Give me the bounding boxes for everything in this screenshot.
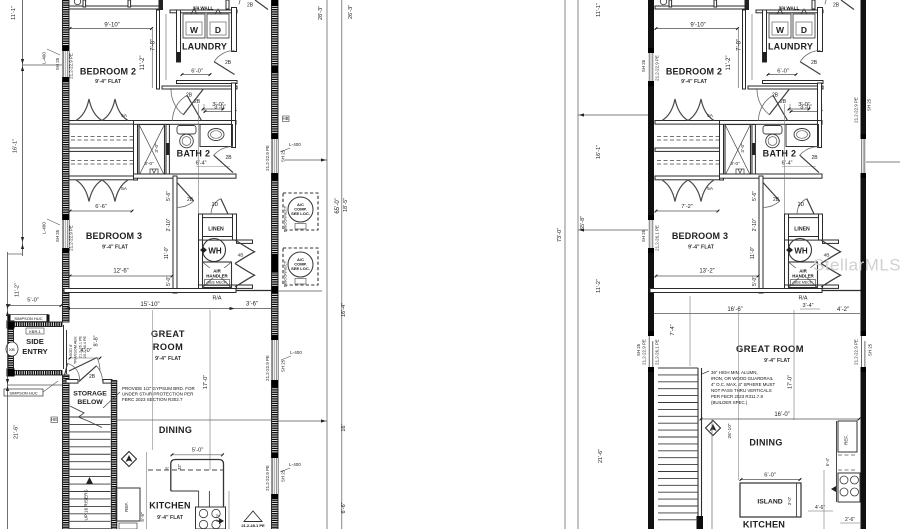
svg-text:SH 25: SH 25	[55, 229, 60, 242]
svg-text:5A: 5A	[707, 113, 714, 119]
svg-text:3/4 WALL: 3/4 WALL	[193, 6, 214, 11]
svg-text:11’-2”: 11’-2”	[596, 279, 602, 293]
svg-text:STORAGE: STORAGE	[73, 391, 107, 398]
svg-text:REF.: REF.	[124, 502, 129, 512]
svg-text:FBRC 2023 SECTION R302.7: FBRC 2023 SECTION R302.7	[122, 397, 183, 402]
svg-text:9’-4” FLAT: 9’-4” FLAT	[157, 515, 184, 521]
left plan: linen closet	[199, 214, 237, 218]
left plan: dim 3'-6	[236, 308, 272, 310]
svg-text:SIDE: SIDE	[26, 337, 44, 346]
left plan: WH bifold 4B	[235, 240, 255, 287]
svg-text:StellarMLS: StellarMLS	[813, 256, 900, 275]
svg-text:3’-0”: 3’-0”	[154, 143, 159, 153]
right plan: exterior right wall	[861, 0, 867, 529]
dim column: far left jog	[8, 253, 23, 255]
left plan: kitchen dims	[146, 452, 148, 529]
left plan: linen door 2D	[221, 199, 228, 214]
svg-text:21.2-22.9 PE: 21.2-22.9 PE	[854, 339, 859, 365]
svg-text:BELOW: BELOW	[77, 399, 103, 406]
svg-text:LINEN: LINEN	[208, 227, 224, 233]
svg-text:4B: 4B	[238, 253, 244, 259]
svg-text:W: W	[190, 25, 199, 35]
right plan: bedroom 2 right wall	[743, 10, 746, 89]
left plan: right wall window bath	[272, 134, 279, 139]
svg-text:6’-0”: 6’-0”	[777, 69, 789, 75]
svg-text:11’-0”: 11’-0”	[750, 246, 756, 259]
svg-text:HANDLER: HANDLER	[792, 274, 814, 279]
svg-text:KBR-1: KBR-1	[29, 329, 42, 334]
svg-text:2’-10”: 2’-10”	[752, 218, 758, 231]
svg-text:BEDROOM 2: BEDROOM 2	[80, 67, 136, 77]
left plan: porch posts	[7, 321, 15, 329]
svg-text:21.2-28.1 PE: 21.2-28.1 PE	[241, 523, 265, 528]
svg-text:L-400: L-400	[289, 142, 301, 147]
svg-text:HB: HB	[51, 417, 57, 422]
svg-text:7’-4”: 7’-4”	[670, 324, 676, 335]
left plan: kitchen peninsula	[171, 460, 224, 508]
svg-text:BATH 2: BATH 2	[177, 149, 211, 159]
svg-text:5’-0”: 5’-0”	[27, 298, 39, 304]
svg-text:(SEE MECH.: (SEE MECH.	[207, 281, 228, 285]
svg-text:11’-0”: 11’-0”	[164, 246, 170, 259]
left plan: range	[196, 507, 226, 529]
right plan: north arrow	[706, 421, 721, 436]
left plan: hall right wall	[232, 83, 236, 121]
svg-text:8’-8”: 8’-8”	[94, 335, 100, 346]
svg-text:16’: 16’	[341, 424, 347, 431]
svg-text:(BUILDER SPEC.): (BUILDER SPEC.)	[711, 400, 748, 405]
svg-text:UNDER STAIR PROTECTION PER: UNDER STAIR PROTECTION PER	[122, 392, 194, 397]
left plan: bedroom3/hall wall	[173, 176, 177, 293]
left plan: exterior left wall lower	[63, 375, 70, 529]
svg-text:L-400: L-400	[42, 52, 47, 64]
svg-text:SIMPSON HUC: SIMPSON HUC	[14, 316, 42, 321]
svg-text:DISCONNECT: DISCONNECT	[283, 205, 288, 232]
left plan: dim 6'-6 closet	[69, 210, 133, 212]
svg-text:WH: WH	[794, 247, 808, 256]
svg-text:21.2-22.9 PE: 21.2-22.9 PE	[265, 465, 270, 491]
svg-text:5A: 5A	[121, 113, 128, 119]
svg-text:9’-4” FLAT: 9’-4” FLAT	[764, 358, 791, 364]
right plan: bath door top 2B	[773, 95, 788, 120]
svg-text:SH 25: SH 25	[868, 343, 873, 356]
left plan: closet bifold bottom 5A	[76, 180, 128, 202]
left plan: closet walls	[69, 121, 134, 125]
left plan: dim 6'-0 laundry	[181, 74, 211, 76]
svg-text:6’-4”: 6’-4”	[782, 161, 793, 167]
svg-text:D: D	[215, 25, 221, 35]
svg-text:BEDROOM 3: BEDROOM 3	[86, 231, 142, 241]
svg-text:32”: 32”	[177, 463, 182, 470]
svg-text:UP 16 RISERS: UP 16 RISERS	[84, 489, 89, 520]
dim connector right y420	[278, 420, 327, 422]
right plan: closet shelves dashed	[657, 136, 719, 138]
svg-text:L-400: L-400	[42, 222, 47, 234]
right plan: dim 9'-10	[655, 28, 738, 30]
svg-text:ROOM: ROOM	[153, 342, 184, 352]
dim connector mid y115	[578, 114, 648, 116]
right plan: water heater WH	[789, 239, 812, 262]
svg-text:26’-3”: 26’-3”	[348, 5, 354, 19]
dim connector porch top	[8, 305, 63, 307]
svg-text:2B: 2B	[225, 155, 232, 161]
svg-text:2B: 2B	[89, 374, 96, 380]
left plan: left wall window bedroom2	[63, 46, 70, 51]
svg-text:21.2-26.1 PE: 21.2-26.1 PE	[79, 335, 83, 358]
left plan: laundry walls	[170, 10, 237, 13]
right plan: toilet	[763, 126, 782, 135]
svg-text:11’-2”: 11’-2”	[15, 283, 21, 297]
svg-text:WH: WH	[208, 247, 222, 256]
svg-text:5’-5”: 5’-5”	[140, 512, 145, 522]
svg-text:11’-2”: 11’-2”	[140, 56, 146, 71]
svg-text:(SEE MECH.: (SEE MECH.	[793, 281, 814, 285]
svg-text:2B: 2B	[194, 99, 201, 105]
right plan: washer	[769, 14, 791, 38]
dim column: left-plan right line B	[341, 0, 343, 529]
left plan: laundry door 2B	[214, 62, 234, 75]
right plan: right wall sliding door	[861, 336, 867, 367]
svg-text:9’-10”: 9’-10”	[690, 23, 705, 29]
svg-text:16’-0”: 16’-0”	[774, 412, 789, 418]
svg-text:PROVIDE 1/2” GYPSUM BRD. FOR: PROVIDE 1/2” GYPSUM BRD. FOR	[122, 386, 196, 391]
svg-text:7’-8”: 7’-8”	[737, 39, 743, 51]
left plan: air handler	[203, 262, 232, 288]
right plan: hall right wall	[818, 83, 822, 121]
dim column: far left ticks	[21, 59, 24, 64]
right plan: left wall window bedroom3	[648, 215, 654, 220]
right plan: right wall window bath	[861, 134, 867, 139]
svg-text:IRON, OR WOOD GUARDRAIL: IRON, OR WOOD GUARDRAIL	[711, 376, 774, 381]
right plan: fridge/pantry	[838, 421, 857, 452]
svg-text:9’-4” FLAT: 9’-4” FLAT	[95, 79, 122, 85]
svg-text:2D: 2D	[212, 202, 219, 208]
svg-text:21.2-22.9 PE: 21.2-22.9 PE	[854, 97, 859, 123]
svg-text:6’-0”: 6’-0”	[191, 69, 203, 75]
left plan: right wall joints	[272, 66, 279, 73]
left plan: bath door bottom 2B	[214, 155, 233, 172]
left plan: exterior left wall upper	[63, 0, 70, 322]
left plan: attic access triangle	[244, 511, 262, 522]
svg-text:3’-0”: 3’-0”	[798, 102, 810, 108]
svg-text:3’-0”: 3’-0”	[212, 102, 224, 108]
left plan: washer	[183, 14, 205, 38]
svg-text:R/A: R/A	[213, 296, 222, 302]
svg-text:BATH 2: BATH 2	[763, 149, 797, 159]
right plan: great room north wall	[650, 289, 822, 293]
svg-text:BEDROOM 2: BEDROOM 2	[666, 67, 722, 77]
svg-text:5A: 5A	[121, 186, 128, 192]
svg-text:2D: 2D	[798, 202, 805, 208]
svg-text:9’-4” FLAT: 9’-4” FLAT	[155, 356, 182, 362]
svg-text:6’-4”: 6’-4”	[825, 457, 830, 466]
svg-text:D: D	[801, 25, 807, 35]
svg-text:21.2-22.9 PE: 21.2-22.9 PE	[265, 355, 270, 381]
svg-text:3’-0”: 3’-0”	[144, 161, 154, 166]
svg-text:5’-6”: 5’-6”	[752, 191, 758, 201]
left plan: hall door 2B	[183, 90, 203, 115]
svg-text:BEDROOM 3: BEDROOM 3	[672, 231, 728, 241]
left plan: top cut wall stubs	[69, 6, 160, 9]
right plan: linen door 2D	[807, 199, 814, 214]
svg-text:21.2-26.1 PE: 21.2-26.1 PE	[655, 339, 660, 365]
right plan: center dim lines	[738, 310, 740, 480]
left plan: storage door 2B	[79, 366, 96, 382]
svg-text:4’-2”: 4’-2”	[837, 307, 849, 313]
svg-text:NOT PASS THRU VERTICALS: NOT PASS THRU VERTICALS	[711, 388, 772, 393]
svg-text:6’-0”: 6’-0”	[764, 473, 776, 479]
svg-text:3/4 WALL: 3/4 WALL	[779, 6, 800, 11]
svg-text:SH 25: SH 25	[867, 98, 872, 111]
right plan: dim 12'-6 bedroom3	[655, 275, 759, 277]
left plan: closet bifold top 5A	[76, 99, 128, 121]
svg-text:11’-1”: 11’-1”	[11, 6, 17, 20]
dim connector right y291	[278, 290, 322, 292]
svg-text:KB: KB	[9, 347, 15, 352]
svg-text:21.2-22.9 PE: 21.2-22.9 PE	[265, 145, 270, 171]
dim column: far left line lower	[7, 252, 9, 529]
svg-text:KITCHEN: KITCHEN	[149, 501, 190, 511]
svg-text:26’-10”: 26’-10”	[727, 423, 733, 438]
right plan: guardrail note	[702, 371, 709, 374]
left plan: dim 12'-6 bedroom3	[69, 275, 173, 277]
svg-text:17’-0”: 17’-0”	[788, 375, 794, 389]
svg-text:2B: 2B	[772, 93, 779, 99]
svg-text:28’-3”: 28’-3”	[318, 6, 324, 20]
left plan: shower head mark	[150, 169, 158, 175]
right plan: WH bifold 4B	[821, 240, 841, 287]
svg-text:2’-10”: 2’-10”	[166, 218, 172, 231]
svg-text:6’-0”: 6’-0”	[216, 513, 221, 522]
svg-text:DINING: DINING	[749, 438, 782, 448]
left plan: stair wall	[111, 381, 117, 529]
svg-text:SEE LOC.: SEE LOC.	[291, 211, 310, 216]
svg-text:65’-0”: 65’-0”	[335, 198, 341, 213]
right plan: hall door to bedroom3 2B	[763, 183, 780, 202]
svg-text:SH 25: SH 25	[55, 57, 60, 70]
svg-text:5’: 5’	[165, 466, 168, 471]
right plan: top cut wall stubs	[655, 6, 746, 9]
svg-text:KITCHEN: KITCHEN	[743, 520, 785, 529]
right plan: shower stall	[720, 121, 724, 181]
dim connector left y65	[23, 64, 63, 66]
right plan: dim 16'-0	[700, 418, 860, 420]
right plan: closet bifold top 5A	[662, 99, 714, 121]
right plan: dim 6'-0 laundry	[767, 74, 797, 76]
left plan: simpson huc top	[9, 315, 48, 322]
left plan: exterior right wall	[272, 0, 279, 529]
right plan: laundry walls	[756, 10, 823, 13]
svg-text:20.2-36.4 PE: 20.2-36.4 PE	[83, 335, 87, 358]
left plan: simpson huc bottom	[4, 389, 43, 396]
right plan: exterior left wall	[648, 0, 654, 529]
svg-text:4’-0”: 4’-0”	[80, 348, 91, 354]
right plan: hall door 2B	[769, 90, 789, 115]
svg-text:LAUNDRY: LAUNDRY	[768, 42, 813, 52]
svg-text:6’-4”: 6’-4”	[196, 161, 207, 167]
right plan: closet bifold bottom 5A	[662, 180, 714, 202]
svg-text:2B: 2B	[833, 3, 840, 9]
left plan: dim 15'-10	[64, 308, 236, 310]
svg-text:2B: 2B	[225, 60, 232, 66]
left plan: A/C compressor 1	[283, 193, 318, 230]
right plan: bath walls	[720, 121, 823, 125]
svg-text:SH 25: SH 25	[641, 229, 646, 242]
svg-text:7’-8”: 7’-8”	[151, 39, 157, 51]
left plan: dim 5'-0 kitchen	[171, 454, 224, 456]
svg-text:5’-0”: 5’-0”	[192, 448, 204, 454]
svg-text:R/A: R/A	[799, 296, 808, 302]
svg-text:GREAT: GREAT	[151, 329, 185, 339]
svg-text:73’-0”: 73’-0”	[557, 228, 563, 242]
svg-text:12’-6”: 12’-6”	[113, 269, 128, 275]
left plan: dining dim line	[116, 419, 272, 421]
svg-text:16’-4”: 16’-4”	[341, 303, 347, 317]
left plan: A/C compressor 2	[283, 248, 318, 285]
svg-text:2’-6”: 2’-6”	[845, 517, 855, 523]
right plan: dim 6'-0 island	[740, 479, 801, 481]
svg-text:15’-10”: 15’-10”	[140, 301, 159, 308]
svg-text:16’-6”: 16’-6”	[727, 307, 742, 313]
dim column: left-plan right line A	[326, 0, 328, 529]
right plan: WH closet walls	[785, 240, 789, 289]
right plan: air handler	[789, 262, 818, 288]
svg-text:3’-0”: 3’-0”	[740, 143, 745, 153]
svg-text:W: W	[776, 25, 785, 35]
svg-text:36” HIGH MIN. ALUMN,: 36” HIGH MIN. ALUMN,	[711, 370, 758, 375]
svg-text:7’-2”: 7’-2”	[681, 204, 693, 210]
svg-text:21.2-22.9 PE: 21.2-22.9 PE	[69, 53, 74, 79]
svg-text:11’-1”: 11’-1”	[596, 3, 602, 17]
svg-text:TRANSOM ABV.: TRANSOM ABV.	[74, 336, 78, 364]
svg-text:SH 25: SH 25	[281, 359, 286, 372]
svg-text:13’-2”: 13’-2”	[699, 269, 714, 275]
right plan: dining/stair line	[711, 419, 713, 529]
left plan: toilet	[177, 126, 196, 135]
svg-text:21.2-22.9 PE: 21.2-22.9 PE	[69, 225, 74, 251]
dim column: mid line A	[564, 0, 566, 529]
left plan: entry swing door	[69, 358, 97, 372]
left plan: side entry porch walls	[8, 322, 62, 327]
svg-text:SH 25: SH 25	[636, 343, 641, 356]
left plan: right wall window greatroom	[272, 335, 279, 340]
left plan: bedroom 2 right wall	[157, 10, 160, 89]
svg-text:21’-6”: 21’-6”	[14, 425, 20, 439]
left plan: WH closet walls	[199, 240, 203, 289]
svg-text:11’-2”: 11’-2”	[726, 56, 732, 71]
right plan: dim 6'-6 closet	[655, 210, 719, 212]
left plan: dim 9'-10	[69, 28, 152, 30]
svg-text:HB: HB	[282, 116, 288, 121]
right plan: range	[838, 473, 860, 502]
left plan: vanity sink	[200, 125, 233, 147]
svg-text:2B: 2B	[187, 197, 194, 203]
right plan: dim 16'-6 and 4'-2	[654, 313, 860, 315]
svg-text:21.2-26.1 PE: 21.2-26.1 PE	[655, 225, 660, 251]
right plan: dim 3'-0 bath door	[788, 108, 810, 110]
dim connector right y160	[285, 159, 327, 161]
svg-text:16’-1”: 16’-1”	[596, 145, 602, 159]
svg-text:21.2-22.9 PE: 21.2-22.9 PE	[642, 339, 647, 365]
svg-text:3’-6”: 3’-6”	[246, 302, 258, 308]
svg-text:ISLAND: ISLAND	[757, 499, 782, 506]
svg-text:9’-4” FLAT: 9’-4” FLAT	[681, 79, 708, 85]
right plan: stair wall	[697, 368, 699, 516]
svg-text:2B: 2B	[186, 93, 193, 99]
svg-text:9’-4” FLAT: 9’-4” FLAT	[102, 245, 129, 251]
svg-text:LAUNDRY: LAUNDRY	[182, 42, 227, 52]
right plan: shower head mark	[736, 169, 744, 175]
left plan: north arrow	[122, 452, 137, 467]
left plan: water heater WH	[203, 239, 226, 262]
svg-text:DISCONNECT: DISCONNECT	[283, 260, 288, 287]
svg-text:HANDLER: HANDLER	[206, 274, 228, 279]
left plan: dim 3'-0 bath door	[202, 108, 224, 110]
right plan: vanity sink	[786, 125, 819, 147]
svg-text:5’-6”: 5’-6”	[166, 191, 172, 201]
svg-text:9’-4” FLAT: 9’-4” FLAT	[688, 245, 715, 251]
left plan: stair treads	[69, 416, 111, 418]
svg-text:21’-6”: 21’-6”	[598, 449, 604, 463]
right plan: left wall sliding door	[648, 336, 654, 367]
svg-text:2B: 2B	[811, 155, 818, 161]
svg-text:L-400: L-400	[290, 350, 302, 355]
left plan: up arrow	[86, 477, 93, 484]
left plan: storage top wall	[66, 380, 78, 384]
left plan: great room north wall	[64, 289, 236, 293]
left plan: left wall window bedroom3	[63, 215, 70, 220]
right plan: bedroom3/hall wall	[759, 176, 763, 293]
svg-text:65’-8”: 65’-8”	[580, 216, 586, 230]
right plan: dryer	[793, 14, 815, 38]
svg-text:SEE LOC.: SEE LOC.	[291, 266, 310, 271]
svg-text:17’-0”: 17’-0”	[203, 375, 209, 389]
svg-text:2B: 2B	[811, 60, 818, 66]
svg-text:4” O.C. MAX, 4” SPHERE MUST: 4” O.C. MAX, 4” SPHERE MUST	[711, 382, 775, 387]
svg-text:21.2-22.9 PE: 21.2-22.9 PE	[655, 55, 660, 81]
left plan: break line	[70, 406, 102, 428]
svg-text:SIMPSON HUC: SIMPSON HUC	[9, 390, 37, 395]
svg-text:9’-10”: 9’-10”	[104, 23, 119, 29]
svg-text:6’-6”: 6’-6”	[341, 502, 347, 513]
svg-text:6’-6”: 6’-6”	[95, 204, 107, 210]
left plan: dim 17'-0 vertical	[209, 310, 211, 470]
svg-text:2B: 2B	[773, 197, 780, 203]
right plan: dim 7'-4 vertical	[689, 296, 691, 366]
svg-text:PER FBCR 2023 R311.7.8: PER FBCR 2023 R311.7.8	[711, 394, 763, 399]
svg-text:18’-5”: 18’-5”	[343, 198, 349, 212]
svg-text:REF.: REF.	[844, 435, 849, 445]
right plan: closet walls	[655, 121, 720, 125]
dim column: mid line B	[577, 0, 579, 529]
right plan: left wall window bedroom2	[648, 48, 654, 53]
right plan: stair treads	[658, 367, 698, 369]
svg-text:3’-4”: 3’-4”	[802, 303, 813, 309]
left plan: porch oval	[6, 342, 18, 356]
left plan: fridge	[116, 488, 140, 521]
right plan: island	[740, 483, 801, 517]
svg-text:2B: 2B	[247, 3, 254, 9]
svg-text:L-400: L-400	[289, 462, 301, 467]
dim connector mid y230	[578, 229, 648, 231]
left plan: dim 3'-0 hall	[204, 111, 236, 113]
right plan: bath door bottom 2B	[800, 155, 819, 172]
svg-text:16’-1”: 16’-1”	[13, 139, 19, 153]
left plan: hall door to bedroom3 2B	[177, 183, 194, 202]
svg-text:5A: 5A	[707, 186, 714, 192]
svg-text:SH 25: SH 25	[641, 59, 646, 72]
dim column: far left line upper	[22, 0, 24, 256]
